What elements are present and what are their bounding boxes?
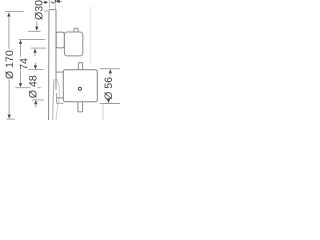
dim top (clipped): left stem (42, 1, 45, 3)
side view: knob (profile) (56, 32, 64, 48)
side view: spout faint outline (56, 78, 59, 120)
dim top (clipped): ext line (49, 0, 51, 8)
dim Ø48: lower arrow (up) (34, 100, 37, 104)
dim Ø30: upper ext line (28, 30, 41, 32)
side view: inner curve line bottom (53, 79, 54, 120)
front view: square body (63, 70, 97, 102)
dim 74: top arrow (19, 40, 22, 44)
dim top (clipped): digit (51, 0, 56, 3)
neck top line (56, 71, 63, 73)
dim Ø56: top stem (109, 73, 111, 76)
dim Ø56: top arrow (up) (109, 69, 112, 73)
faint vertical artifact right of body (top) (90, 7, 92, 65)
dim top (clipped): left arrow (right-pointing) (44, 1, 48, 4)
small center hole (78, 87, 81, 90)
dim 74: line upper (20, 44, 22, 57)
dim Ø170: bottom extension line (7, 118, 16, 120)
dim Ø170: top ext segment near plate (44, 10, 48, 12)
dim 74: bottom extension line (broken around text) (15, 87, 30, 89)
dim Ø30: lower arrow (up) (33, 49, 36, 53)
dim 74: line lower (20, 71, 22, 84)
faint vertical artifact bottom right (102, 104, 104, 120)
dim Ø170: line upper part (8, 16, 10, 49)
dim Ø48: upper stem (34, 63, 36, 67)
side view: body behind wall (64, 32, 82, 56)
dim Ø170: bottom arrow (8, 115, 11, 119)
dim Ø30: lower ext line (31, 47, 46, 49)
dim top (clipped): right stem (60, 0, 63, 2)
dim Ø48: upper ext line (28, 69, 44, 71)
dim Ø30: upper arrow (down) (35, 27, 38, 31)
side view: lower lip vertical (56, 93, 58, 103)
dim Ø56: text (104, 77, 112, 99)
dim Ø48: lower stem (35, 104, 37, 108)
dim Ø30: lower stem (34, 52, 36, 56)
dim 74: top extension line (19, 38, 45, 40)
dim 74: text (20, 58, 27, 69)
dim Ø30: upper stem (36, 22, 38, 28)
dim Ø56: bottom arrow (down) (107, 99, 110, 103)
front view: bottom tab (78, 102, 83, 112)
dim Ø56: bottom ext line (100, 103, 120, 105)
dim Ø170: top arrow (7, 12, 10, 16)
neck bottom line (56, 97, 63, 99)
dim Ø170: line lower part (8, 80, 10, 116)
dim top (clipped): right ext line (54, 4, 56, 10)
dim Ø48: lower ext line (32, 99, 44, 101)
dim top (clipped): right arrow (left-pointing) (55, 0, 60, 3)
side view: top pipe stub (74, 28, 78, 32)
dim Ø30: text (35, 0, 43, 19)
front view: top tab (78, 63, 82, 70)
dim 74: bottom arrow (19, 83, 22, 87)
dim Ø56: top ext line (100, 68, 120, 70)
dim Ø48: upper arrow (down) (34, 65, 37, 69)
dim Ø170: top extension line (5, 11, 24, 13)
dim Ø170: text (5, 51, 13, 79)
side view: lower lip horizontal (57, 102, 64, 104)
dim Ø48: text (29, 76, 37, 98)
side view: wall plate outline (49, 10, 56, 120)
